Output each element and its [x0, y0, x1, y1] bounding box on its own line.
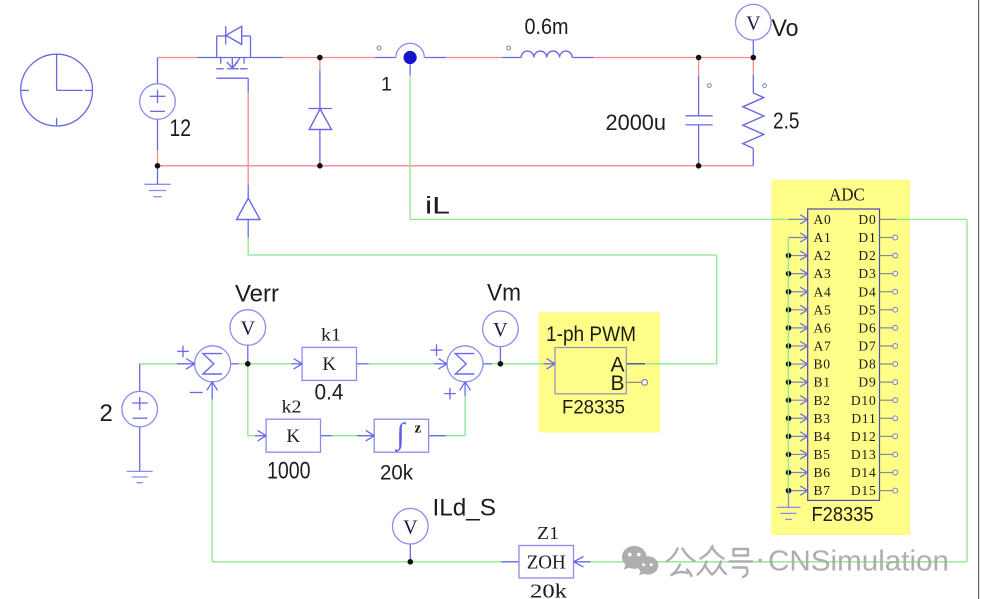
svg-text:B2: B2 [814, 393, 831, 408]
adc pin row B6/D14 [786, 465, 898, 480]
watermark CNSimulation [622, 540, 949, 578]
svg-text:Vo: Vo [772, 15, 799, 42]
wire gate-drive green horizontal [248, 254, 717, 256]
node Vm junction [498, 361, 504, 367]
svg-text:12: 12 [170, 115, 192, 142]
zoh input arrow [574, 557, 584, 568]
label Vm [487, 280, 521, 307]
svg-text:D4: D4 [858, 284, 876, 299]
svg-text:B: B [610, 372, 624, 395]
pwm block U1 1-ph PWM [546, 323, 636, 419]
window border line [978, 0, 980, 599]
svg-text:ILd_S: ILd_S [433, 495, 497, 522]
wire Verr branch green down [247, 364, 249, 436]
gain block k1 [302, 347, 356, 380]
adc pin row A7/D7 [786, 339, 898, 354]
wire Vo meter stem blue [752, 40, 754, 58]
svg-text:2: 2 [100, 400, 113, 427]
zoh block Z1 [519, 546, 574, 579]
svg-text:A4: A4 [814, 284, 832, 299]
wire Verr meter stem [247, 345, 249, 364]
wire integrator green up to S2 [464, 396, 466, 436]
adc pin row B3/D11 [786, 411, 898, 426]
wire PWM input blue lead [544, 363, 556, 365]
label ILd_S [433, 495, 497, 522]
wire k2 out blue stub [321, 435, 333, 437]
label Verr [235, 280, 279, 307]
wire source-12 vertical red to rail [157, 150, 159, 166]
wire top rail blue stub to mosfet drain [197, 57, 217, 59]
pwm input arrow [547, 359, 556, 370]
svg-text:0.4: 0.4 [315, 380, 344, 405]
wire ZOH out blue lead [501, 561, 519, 563]
wire inductor right lead blue [572, 57, 593, 59]
gain block k2 [266, 419, 320, 452]
svg-text:2000u: 2000u [606, 110, 667, 135]
S2 plus sign upper [431, 344, 443, 356]
adc pin row B7/D15 [786, 483, 898, 498]
wire source-12 vertical blue lower [157, 119, 159, 150]
label 0.4 [315, 380, 344, 405]
svg-text:K: K [322, 354, 336, 375]
wire driver output blue stub [247, 220, 249, 238]
mosfet Q1 [216, 26, 250, 78]
svg-text:B3: B3 [814, 411, 831, 426]
adc pin row A1/D1 [789, 230, 898, 245]
wire sensor right lead blue [424, 57, 446, 59]
svg-text:D9: D9 [858, 375, 876, 390]
wire gate red segment [247, 93, 249, 185]
wire driver green vertical [247, 237, 249, 255]
wire S1 minus green vertical [211, 399, 213, 561]
adc pin row A0/D0 [789, 212, 897, 227]
voltmeter Vm [483, 311, 519, 347]
label 1000 [267, 458, 311, 485]
label 20k zoh [530, 581, 567, 599]
wire right loop green vertical [966, 219, 968, 561]
wire Vm meter stem [499, 347, 501, 364]
node ILdS junction [408, 559, 414, 565]
wire ZOH input blue lead [574, 561, 591, 563]
PWM subsystem yellow box [539, 312, 661, 432]
dc source V2 2V [122, 391, 158, 427]
svg-text:D7: D7 [858, 339, 876, 354]
svg-text:20k: 20k [530, 581, 567, 599]
wire gate-drive green vertical right [716, 255, 718, 364]
wire S1 minus blue lead [211, 382, 213, 400]
label Z1 [537, 523, 559, 543]
adc pin row A5/D5 [786, 302, 898, 317]
S1 minus sign [190, 392, 203, 394]
wire iL green vertical [409, 76, 411, 220]
S1 plus sign [177, 346, 189, 358]
S2 bottom arrow [460, 382, 471, 391]
wire k2 input blue lead [255, 435, 266, 437]
svg-text:D2: D2 [858, 248, 876, 263]
wire gate blue from mosfet [247, 78, 249, 92]
adc title ADC [829, 185, 865, 205]
adc pin row B1/D9 [786, 375, 898, 390]
wire Verr branch green right [248, 435, 255, 437]
svg-text:Verr: Verr [235, 280, 279, 307]
adc pin row B5/D13 [786, 447, 898, 462]
wire sensor drop blue [409, 64, 411, 76]
resistor R1 2.5 [743, 93, 764, 148]
S2 input arrow [439, 359, 448, 370]
svg-text:20k: 20k [380, 462, 413, 485]
wire source-12 vertical blue upper [157, 58, 159, 84]
node bottom cap junction [696, 163, 702, 169]
svg-text:A1: A1 [814, 230, 832, 245]
wire integrator input blue lead [357, 435, 374, 437]
dc source V1 12V [140, 84, 176, 120]
svg-text:ADC: ADC [829, 185, 865, 205]
wire S2 out blue stub [483, 363, 492, 365]
wire Verr node green to k1 [248, 363, 292, 365]
wire ref source stem blue [139, 364, 141, 392]
S1 input arrow [186, 359, 195, 370]
svg-text:D13: D13 [851, 447, 877, 462]
adc pin row B2/D10 [786, 393, 898, 408]
S2 plus sign lower [444, 388, 456, 400]
svg-text:D14: D14 [851, 465, 877, 480]
wire top rail red to diode node [283, 57, 375, 59]
wire top rail red after sensor [446, 57, 502, 59]
label F28335 adc [812, 504, 874, 526]
wire S2 out green to Vm node [492, 363, 500, 365]
wire integrator out blue stub [429, 435, 446, 437]
svg-text:F28335: F28335 [812, 504, 874, 526]
wire S1 out green to Verr node [239, 363, 248, 365]
wire diode branch red [319, 58, 321, 71]
k1 input arrow [294, 359, 303, 370]
inductor polarity marker [507, 46, 511, 50]
label 20k integrator [380, 462, 413, 485]
svg-text:1: 1 [381, 74, 392, 96]
adc inner rectangle [808, 209, 880, 500]
wire S2 input blue lead [434, 363, 447, 365]
svg-text:k1: k1 [321, 325, 341, 345]
svg-text:·: · [755, 540, 766, 578]
wire resistor branch red [752, 58, 754, 76]
inductor L1 0.6m [521, 51, 572, 57]
wire resistor branch blue lower [752, 148, 754, 165]
resistor polarity marker [763, 84, 767, 88]
svg-text:D5: D5 [858, 302, 876, 317]
svg-text:B4: B4 [814, 429, 831, 444]
label k2 [282, 397, 302, 417]
svg-text:z: z [415, 421, 422, 437]
wire ZOH input green from right [591, 561, 967, 563]
svg-text:1000: 1000 [267, 458, 311, 485]
pwm B output lead [626, 380, 647, 386]
wire iL green horizontal to ADC A0 [410, 218, 789, 220]
wire k2 out green [333, 435, 358, 437]
wire ref source green to summer S1 [140, 363, 177, 365]
svg-text:A7: A7 [814, 339, 832, 354]
wire k1 out blue stub [357, 363, 369, 365]
wire sensor left lead blue [375, 57, 396, 59]
svg-text:CNSimulation: CNSimulation [768, 546, 949, 578]
svg-text:A3: A3 [814, 266, 832, 281]
svg-text:B5: B5 [814, 447, 831, 462]
adc ground [777, 490, 801, 519]
clock element [21, 54, 93, 126]
wire cap branch blue upper [698, 76, 700, 116]
svg-text:k2: k2 [282, 397, 302, 417]
label iL [425, 193, 450, 220]
svg-text:D8: D8 [858, 357, 876, 372]
svg-text:0.6m: 0.6m [525, 14, 569, 39]
svg-text:ZOH: ZOH [527, 552, 566, 573]
capacitor C1 2000u [686, 116, 713, 125]
svg-text:Z1: Z1 [537, 523, 559, 543]
wire S1 out blue stub [231, 363, 239, 365]
wire inductor left lead blue [502, 57, 521, 59]
adc pin row A2/D2 [786, 248, 898, 263]
svg-text:B1: B1 [814, 375, 831, 390]
wire diode branch blue lower [319, 130, 321, 166]
svg-text:D6: D6 [858, 320, 876, 335]
svg-text:A5: A5 [814, 302, 832, 317]
wire Vm node green to PWM [500, 363, 543, 365]
ground G2 [127, 427, 153, 483]
k2 input arrow [258, 430, 267, 441]
wire k1 input blue lead [292, 363, 303, 365]
ADC subsystem yellow box [771, 180, 910, 535]
wire gate blue stub to driver [247, 185, 249, 198]
svg-text:A0: A0 [814, 212, 832, 227]
svg-text:D11: D11 [851, 411, 876, 426]
node top resistor junction [751, 55, 757, 61]
label 2000u [606, 110, 667, 135]
svg-text:V: V [403, 516, 418, 538]
svg-text:V: V [241, 318, 256, 340]
summer S2 [447, 346, 483, 382]
svg-text:V: V [746, 12, 761, 34]
svg-text:iL: iL [425, 193, 450, 220]
label 2 [100, 400, 113, 427]
wire cap branch blue lower [698, 125, 700, 166]
node bottom source junction [155, 163, 161, 169]
wire top rail red to cap node [594, 57, 699, 59]
label 1 [381, 74, 392, 96]
label Vo [772, 15, 799, 42]
diode D1 [309, 109, 332, 130]
voltmeter Vo [736, 4, 772, 40]
label 2.5 [773, 108, 800, 134]
adc pin row B0/D8 [786, 357, 898, 372]
wire cap branch red [698, 58, 700, 76]
svg-text:D1: D1 [858, 230, 876, 245]
wire top rail red cap node to resistor node [699, 57, 754, 59]
voltmeter ILd_S [393, 508, 429, 544]
svg-text:A2: A2 [814, 248, 832, 263]
node bottom diode junction [317, 163, 323, 169]
wire diode branch blue upper [319, 71, 321, 109]
adc pin row B4/D12 [786, 429, 898, 444]
wire PWM A lead navy [626, 363, 645, 365]
label k1 [321, 325, 341, 345]
on-off controller [237, 198, 261, 219]
adc pin row A3/D3 [786, 266, 898, 281]
svg-text:B6: B6 [814, 465, 831, 480]
label 12 [170, 115, 192, 142]
wire resistor branch blue upper [752, 75, 754, 93]
wire gate-drive green to PWM A [645, 363, 717, 365]
capacitor polarity marker [707, 84, 711, 88]
wire top rail blue stub from mosfet source [251, 57, 284, 59]
svg-text:D15: D15 [851, 483, 877, 498]
wire integrator out green [446, 435, 465, 437]
svg-text:Vm: Vm [487, 280, 521, 307]
wire ref blue lead arrow [177, 363, 195, 365]
svg-text:F28335: F28335 [562, 398, 625, 419]
adc pin row A6/D6 [786, 320, 898, 335]
adc ground bus green [787, 238, 789, 491]
integrator block [374, 418, 428, 453]
S1 bottom arrow [207, 382, 218, 391]
adc pin row A4/D4 [786, 284, 898, 299]
node top diode junction [317, 55, 323, 61]
summer S1 [195, 346, 231, 382]
svg-text:D0: D0 [858, 212, 876, 227]
svg-text:D3: D3 [858, 266, 876, 281]
svg-text:V: V [493, 319, 508, 341]
svg-text:A6: A6 [814, 320, 832, 335]
wire D0 green horizontal [897, 218, 967, 220]
svg-text:B0: B0 [814, 357, 831, 372]
wire k1 out green to S2 [369, 363, 435, 365]
svg-text:D12: D12 [851, 429, 877, 444]
svg-text:2.5: 2.5 [773, 108, 800, 134]
svg-text:∫: ∫ [394, 418, 406, 453]
voltmeter Verr [230, 310, 266, 346]
svg-text:D10: D10 [851, 393, 877, 408]
sensor polarity marker [377, 46, 381, 50]
wire top rail red from source corner [158, 57, 198, 59]
wire feedback green horizontal [212, 561, 501, 563]
wire bottom rail red [158, 165, 754, 167]
wire ILdS meter stem [409, 544, 411, 562]
node Verr junction [245, 361, 251, 367]
wire S2 bottom blue lead [464, 382, 466, 396]
integrator input arrow [366, 430, 375, 441]
svg-text:B7: B7 [814, 483, 831, 498]
ground G1 [145, 166, 171, 197]
label 0.6m [525, 14, 569, 39]
current sensor ISEN1 [396, 43, 424, 64]
svg-text:1-ph PWM: 1-ph PWM [546, 323, 636, 346]
node top cap junction [696, 55, 702, 61]
svg-text:K: K [286, 426, 300, 447]
